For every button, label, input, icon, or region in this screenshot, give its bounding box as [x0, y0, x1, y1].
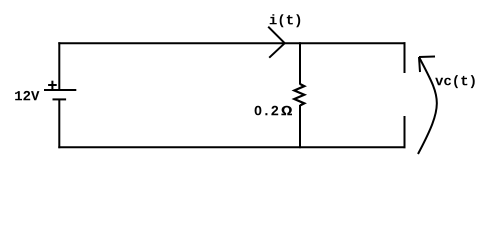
battery 12V negative plate (short) [53, 98, 67, 100]
label i(t) [270, 14, 301, 27]
voltage vc(t) curved arrow arc [418, 57, 437, 154]
wire bottom [58, 146, 405, 148]
wire right lower terminal [404, 116, 406, 148]
wire resistor bottom lead to node on bottom wire [299, 105, 301, 148]
battery 12V positive plate (long) [44, 89, 76, 91]
resistor 0.2 ohm zigzag [294, 84, 304, 106]
label 12V [15, 91, 39, 100]
label ohm symbol [281, 106, 292, 115]
wire left lower (battery bottom lead) [58, 99, 60, 148]
wire resistor top lead from node on top wire [299, 42, 301, 84]
wire right upper terminal [404, 42, 406, 73]
voltage arrowhead barbs [419, 57, 435, 73]
wire top [58, 42, 405, 44]
wire left upper (battery top lead) [58, 42, 60, 90]
label vc(t) [435, 75, 475, 88]
label 0.2 ohm value [255, 106, 279, 116]
current arrow i(t) head on top wire [268, 27, 285, 58]
battery plus sign [48, 81, 57, 90]
